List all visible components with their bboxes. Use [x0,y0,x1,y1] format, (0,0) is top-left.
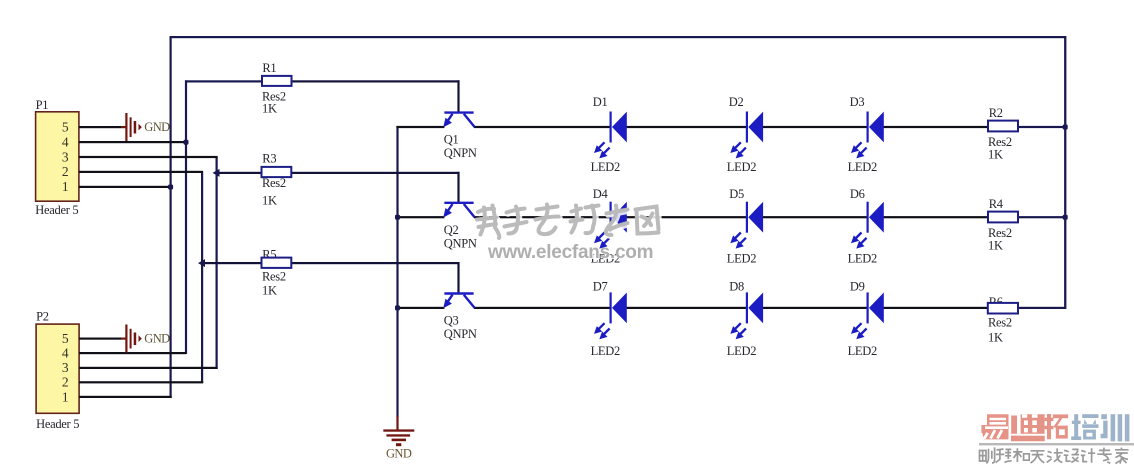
wire P1 pin4 stub [79,141,186,143]
svg-text:Res2: Res2 [262,176,286,190]
svg-text:2: 2 [62,375,69,390]
svg-text:D4: D4 [593,187,609,201]
svg-text:Q2: Q2 [444,223,459,237]
LED D5 [730,202,763,249]
resistor R4 [988,212,1018,223]
LED D3 [851,112,884,159]
watermark calligraphy 电子发烧友网 [477,205,660,240]
svg-text:R3: R3 [262,151,276,165]
svg-text:www.elecfans.com: www.elecfans.com [487,242,653,263]
wire P2 pin5 stub [79,338,121,340]
junction P1 pin4 x186 [184,140,189,145]
svg-text:3: 3 [62,360,69,375]
wire row2 emitter segment [396,216,444,218]
svg-text:1: 1 [62,389,69,404]
LED D9 [851,292,884,339]
svg-text:Res2: Res2 [988,316,1012,330]
wire emitter bus maroon lower segment [396,416,398,431]
resistor R1 [262,76,292,86]
svg-text:D1: D1 [593,95,608,109]
svg-text:1: 1 [62,179,69,194]
wire R3 right segment to Q2 base [292,172,460,174]
watermark logo underline [979,443,1134,445]
wire P2 pin5 gnd maroon [121,338,126,340]
watermark logo char 拓 [1045,414,1069,439]
wire P1 pin3 stub [79,156,218,158]
svg-text:D9: D9 [850,280,865,294]
wire row2 D4 to D5 [627,216,748,218]
LED D1 [594,112,627,159]
svg-text:1K: 1K [262,101,277,115]
svg-text:1K: 1K [262,193,277,207]
svg-text:4: 4 [62,346,69,361]
svg-text:QNPN: QNPN [444,237,477,251]
wire vertical net pin4 x186 [185,80,187,354]
svg-text:LED2: LED2 [727,344,756,358]
transistor Q1 [444,113,474,127]
wire row1 D2 to D3 [763,126,868,128]
wire Q3 base vertical stub [457,262,459,294]
svg-text:D3: D3 [850,95,865,109]
svg-text:R1: R1 [262,61,276,75]
junction P1 pin1 x170 [168,185,173,190]
watermark slogan 射频和天线设计专家 [980,447,1129,463]
wire row3 R6 to right bus [1018,307,1065,309]
wire P1 pin5 stub [79,126,121,128]
svg-text:QNPN: QNPN [444,327,477,341]
wire P1 pin2 stub [79,171,203,173]
svg-text:P1: P1 [36,98,49,112]
svg-text:LED2: LED2 [727,252,756,266]
wire row2 R4 to right bus [1018,216,1065,218]
svg-text:1K: 1K [988,239,1003,253]
watermark logo char 易 [981,414,1008,439]
wire R1 left segment [185,80,263,82]
wire vertical net pin2 x202 [201,172,203,383]
wire Q1 base vertical stub [457,80,459,112]
svg-text:1K: 1K [988,148,1003,162]
resistor R2 [988,121,1018,132]
svg-text:LED2: LED2 [848,160,877,174]
svg-text:LED2: LED2 [591,344,620,358]
LED D8 [730,292,763,339]
resistor R6 [988,303,1018,314]
svg-text:Res2: Res2 [262,269,286,283]
svg-text:D8: D8 [729,280,744,294]
LED D4 [594,202,627,249]
svg-text:P2: P2 [36,309,49,323]
transistor Q2 [444,203,474,217]
wire vertical net pin3 x216.5 [216,157,218,369]
wire row3 D9 to R6 [883,307,988,309]
wire left vertical net pin1 x170 [170,36,172,398]
wire P2 pin1 stub [79,396,172,398]
wire P2 pin2 stub [79,381,203,383]
resistor R3 [262,167,292,177]
wire P2 pin4 stub [79,352,186,354]
power ground GND at P2 pin5 [125,325,142,353]
header P1 [36,112,79,201]
junction right bus row1 [1063,125,1068,130]
wire R5 left segment [201,262,262,264]
svg-text:3: 3 [62,149,69,164]
wire row1 emitter segment [396,126,444,128]
svg-text:R2: R2 [989,106,1003,120]
power ground GND at P1 pin5 [125,113,142,141]
svg-text:4: 4 [62,134,69,149]
wire row2 D5 to D6 [763,216,868,218]
svg-text:1K: 1K [262,283,277,297]
wire R3 left segment [216,172,263,174]
svg-text:R4: R4 [989,197,1004,211]
wire R5 right segment to Q3 base [292,262,460,264]
svg-text:2: 2 [62,164,69,179]
junction arrow R5 tap [198,259,205,267]
wire row3 emitter segment [396,307,444,309]
LED D7 [594,292,627,339]
wire row3 D7 to D8 [627,307,748,309]
svg-text:1K: 1K [988,331,1003,345]
wire row2 D6 to R4 [883,216,988,218]
svg-text:LED2: LED2 [848,252,877,266]
svg-text:Q3: Q3 [444,314,459,328]
svg-text:LED2: LED2 [727,160,756,174]
resistor R5 [262,258,292,268]
svg-text:GND: GND [386,446,412,460]
watermark logo char 训 [1101,414,1130,441]
transistor Q3 [444,294,474,308]
svg-text:Header 5: Header 5 [36,417,79,431]
svg-text:LED2: LED2 [591,160,620,174]
wire emitter bus vertical x397.5 [396,126,398,417]
watermark logo char 培 [1071,414,1098,440]
svg-text:D6: D6 [850,187,865,201]
wire row3 collector to D7 [474,307,611,309]
wire P1 pin5 gnd maroon [121,126,126,128]
wire P1 pin1 stub [79,186,172,188]
svg-text:D2: D2 [729,95,744,109]
junction arrow R3 tap [213,169,220,177]
svg-text:LED2: LED2 [848,344,877,358]
wire row1 R2 to right bus [1018,126,1065,128]
svg-text:Header 5: Header 5 [35,203,78,217]
earth ground GND bottom [383,429,414,446]
svg-text:Q1: Q1 [444,133,459,147]
watermark logo char 迪 [1011,414,1045,441]
LED D6 [851,202,884,249]
wire top bus horizontal [170,36,1066,38]
svg-text:D5: D5 [729,187,744,201]
LED D2 [730,112,763,159]
wire Q2 base vertical stub [457,172,459,203]
header P2 [36,324,79,413]
wire right bus vertical x1065 [1064,36,1066,309]
svg-text:5: 5 [62,331,69,346]
wire R1 right segment to Q1 base [292,80,460,82]
svg-text:D7: D7 [593,280,608,294]
junction emitter bus row3 [395,305,400,310]
junction right bus row2 [1063,215,1068,220]
junction emitter bus row2 [395,215,400,220]
wire row2 collector to D4 [474,216,611,218]
svg-text:5: 5 [62,120,69,135]
wire row1 D3 to R2 [883,126,988,128]
svg-text:GND: GND [144,120,170,134]
wire row1 D1 to D2 [627,126,748,128]
wire row1 collector to D1 [474,126,611,128]
wire row3 D8 to D9 [763,307,868,309]
wire P2 pin3 stub [79,367,218,369]
svg-text:QNPN: QNPN [444,146,477,160]
svg-text:GND: GND [144,332,170,346]
